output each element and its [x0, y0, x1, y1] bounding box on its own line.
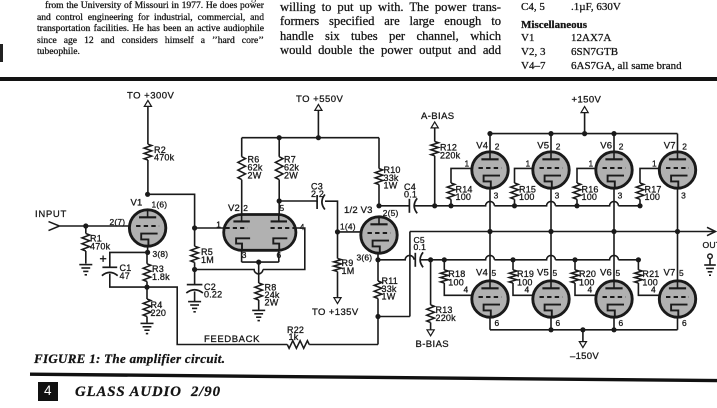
resistor R2: [144, 144, 175, 162]
footer magazine title: [75, 384, 221, 401]
triode V7 lower half: [651, 267, 696, 327]
resistor R14: [447, 168, 472, 205]
wire: V3 cathode to C5 (hop over feedback riser): [378, 255, 414, 259]
ground (output reference, floating): [704, 254, 716, 275]
triode V6 upper half: [589, 141, 633, 201]
right column: parts list: [521, 1, 717, 73]
node: V3 cathode junction: [375, 253, 380, 262]
wire: +150V plate rail: [487, 113, 677, 137]
capacitor C5: [414, 235, 427, 267]
node: V1 cathode 3(8): [145, 246, 150, 255]
wire: A-bias rail (C4 to R17, hops over cathode leads): [415, 201, 643, 208]
capacitor C3: [279, 181, 325, 209]
node +150V: [572, 95, 602, 113]
triode V6 lower half: [588, 267, 633, 327]
node: V1 plate junction: [145, 192, 150, 197]
node -150V: [570, 330, 599, 362]
top rule: [0, 77, 717, 81]
node B-BIAS: [416, 330, 450, 350]
resistor R8: [255, 262, 280, 310]
wire: +300V to R2: [147, 106, 149, 144]
resistor R1: [82, 226, 111, 264]
wire: plate lead V4 upper: [489, 134, 491, 152]
page number block: [38, 382, 59, 401]
node: input jack: [35, 209, 67, 231]
capacitor C4: [379, 182, 417, 213]
wire: plate lead V7 lower: [677, 232, 679, 281]
resistor R5: [191, 228, 214, 270]
resistor R6: [238, 138, 263, 215]
resistor R12: [431, 128, 461, 206]
node TO +550V: [296, 94, 344, 111]
wire: +550V rail: [242, 110, 379, 140]
wire: cathode lead V6 lower: [613, 317, 615, 330]
resistor R10: [375, 138, 400, 206]
resistor R19: [509, 260, 534, 296]
capacitor C1: [100, 256, 132, 282]
triode V3 (1/2): [344, 205, 399, 262]
resistor R17: [636, 168, 661, 205]
resistor R11: [374, 260, 398, 317]
triode V4 lower half: [464, 267, 509, 327]
triode V7 upper half: [652, 141, 696, 201]
wire: -150V cathode rail: [490, 327, 678, 332]
resistor R7: [275, 138, 299, 215]
wire: V2 cathodes to R8: [242, 250, 279, 264]
node: R7/C3 junction: [277, 198, 282, 203]
node: R3/R4/feedback junction: [144, 285, 149, 290]
resistor R16: [573, 168, 598, 205]
stray text fragment from previous line: [246, 0, 256, 3]
node: R5/C2/V2 pin4 junction: [192, 267, 197, 272]
left column: author bio text: [37, 0, 264, 58]
ground (R8): [252, 310, 265, 320]
ground (R1): [79, 265, 92, 275]
wire: feedback takeoff to R22 line: [147, 287, 287, 344]
figure caption: [34, 351, 225, 367]
wire: plate lead V5 lower: [550, 232, 552, 281]
wire: C3 to V3 grid and R9: [325, 201, 361, 234]
wire: plate lead V4 lower: [489, 232, 491, 281]
wire: plate lead V6 upper: [613, 134, 615, 152]
wire: plate lead V6 lower: [613, 232, 615, 281]
middle column: body text: [280, 0, 501, 57]
twin triode V2: [216, 203, 304, 260]
wire: cathode lead V7 lower: [677, 317, 679, 330]
wire: C1 to R3/R4 junction: [110, 274, 147, 287]
ground (R4): [141, 323, 154, 333]
wire: cathode lead V7 upper: [677, 188, 679, 231]
wire: cathode lead V5 upper: [550, 188, 552, 231]
wire: cathode lead V4 upper: [489, 188, 491, 231]
triode V4 upper half: [465, 141, 509, 201]
resistor R13: [427, 260, 456, 330]
resistor R18: [441, 260, 472, 296]
node A-BIAS: [421, 111, 455, 128]
wire: input to V1 grid pin 2(7): [60, 223, 129, 228]
resistor R4: [143, 287, 166, 323]
wire: plate lead V5 upper: [550, 134, 552, 152]
resistor R21: [635, 260, 660, 296]
wire: junction to V2 pin 4 (hop over R8 lead): [195, 228, 305, 274]
resistor R3: [143, 252, 170, 287]
capacitor C2: [186, 270, 222, 302]
node: V3 plate junction: [376, 203, 381, 208]
resistor R22: [287, 325, 309, 348]
wire: cathode lead V6 upper: [613, 188, 615, 231]
node TO +135V: [312, 298, 359, 319]
resistor R9: [334, 232, 355, 299]
node: C5 output / bias-B rail: [421, 255, 642, 262]
triode V5 lower half: [525, 267, 570, 327]
wire: R2 to V1 plate node: [147, 160, 149, 194]
wire: V1 cathode to C1: [110, 252, 148, 267]
wire: V1 plate node to V2 grid pin 1: [148, 194, 224, 230]
node TO +300V: [127, 91, 175, 107]
wire: R22 to R11 bottom node: [309, 344, 378, 346]
wire: output rail to OUT arrow: [410, 227, 717, 316]
triode V5 upper half: [526, 141, 570, 201]
ground (C2): [188, 302, 201, 312]
wire: cathode lead V5 lower: [550, 317, 552, 330]
resistor R20: [571, 260, 596, 296]
wire: plate lead V7 upper: [677, 134, 679, 152]
triode V1: [110, 198, 169, 259]
label FEEDBACK: [204, 334, 260, 345]
resistor R15: [511, 168, 536, 205]
wire: cathode lead V4 lower: [489, 317, 491, 330]
page-edge mark: [0, 44, 3, 62]
node: R11 bottom / feedback node: [375, 314, 410, 345]
